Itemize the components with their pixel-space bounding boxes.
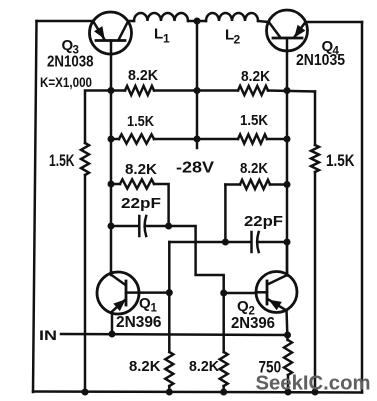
svg-text:1: 1 — [163, 32, 170, 46]
inductor L1 — [134, 13, 188, 21]
wire: left third rail y=184 start — [111, 183, 120, 186]
resistor 8.2K (left, top rail) — [125, 86, 154, 95]
label 750 — [259, 359, 282, 377]
wire: bottom middle 8.2K to rail — [222, 386, 225, 392]
wire: 1.5K left branch from node x111 y90.5 — [85, 91, 111, 144]
svg-text:1.5K: 1.5K — [240, 112, 268, 129]
label 1.5K (left vertical) — [49, 152, 75, 170]
label 2N1038 — [47, 54, 94, 71]
label 22pF (left) — [121, 195, 161, 212]
wire: right third rail corner down to right cap node — [225, 183, 240, 186]
wire: cross-coupling staircase from left cap to Q2 base — [169, 226, 224, 293]
wire: -28V supply stub from L1/L2 center tap — [196, 21, 199, 148]
wire: IN line — [61, 334, 288, 335]
svg-text:22pF: 22pF — [121, 195, 161, 212]
wire: Q1 base to node — [139, 291, 169, 294]
node: junction x111 y226 — [108, 223, 115, 230]
label Q1 — [139, 295, 158, 315]
node: junction x288 bottom rail — [285, 389, 292, 396]
label 2N396 (Q1) — [116, 314, 162, 331]
svg-text:-28V: -28V — [176, 160, 214, 177]
inductor L2 — [206, 13, 258, 21]
node: junction x223.7 bottom rail — [220, 389, 227, 396]
node: junction x85 bottom rail — [82, 389, 89, 396]
node: junction x315 bottom rail — [312, 389, 319, 396]
resistor 8.2K (bottom left) — [165, 352, 173, 386]
svg-text:K=X1,000: K=X1,000 — [40, 75, 92, 90]
wire: left third rail right end down to cap node — [154, 184, 169, 226]
resistor 1.5K (right vertical) — [311, 145, 319, 172]
svg-text:1.5K: 1.5K — [326, 152, 355, 170]
svg-text:L: L — [154, 26, 163, 43]
wire: Q2 collector into circle — [286, 242, 289, 276]
svg-text:8.2K: 8.2K — [125, 161, 157, 178]
node: junction x287 y90.5 — [284, 87, 291, 94]
resistor 1.5K (right, second rail) — [238, 134, 267, 143]
wire: Q2 emitter down to 750 — [285, 313, 288, 341]
transistor Q4 — [267, 10, 308, 51]
node: junction x197 y90.5 — [194, 87, 201, 94]
label 8.2K (right third rail) — [240, 160, 268, 177]
wire: rail y=139 middle — [154, 138, 238, 141]
resistor 8.2K (bottom middle) — [220, 352, 228, 386]
wire: Q2 base node down to bottom 8.2K — [222, 293, 225, 352]
label 1.5K (left second rail) — [127, 113, 154, 130]
node: junction x287 y184.5 — [284, 181, 291, 188]
capacitor C2 22pF (right) — [169, 232, 287, 252]
label 2N1035 — [296, 52, 345, 69]
svg-text:Q: Q — [139, 295, 151, 312]
transistor Q2 — [256, 272, 297, 313]
wire: Q4 base down the right column (x=287) — [286, 51, 289, 274]
label 8.2K (right top) — [241, 68, 270, 85]
wire: L1 to L2 with center tap — [188, 20, 206, 23]
label 2N396 (Q2) — [231, 315, 275, 332]
wire: top rail right (Q4 emitter to frame corner) — [306, 21, 362, 24]
transistor Q1 — [97, 272, 139, 314]
node: junction Q2 base x223.7 — [220, 290, 227, 297]
wire: bottom rail — [33, 392, 362, 393]
node: junction Q2 emitter x287.5 y335 — [284, 332, 291, 339]
node: junction Q1 emitter x112 y334 — [109, 331, 116, 338]
svg-text:8.2K: 8.2K — [129, 358, 161, 375]
wire: Q1 emitter down to IN line — [111, 314, 114, 335]
svg-text:8.2K: 8.2K — [240, 160, 268, 177]
svg-text:22pF: 22pF — [244, 213, 283, 230]
wire: right cap left corner down to Q1 base node — [168, 242, 171, 293]
wire: 1.5K right to bottom rail — [314, 172, 317, 392]
node: junction x287 y139 — [284, 136, 291, 143]
resistor 8.2K (right, top rail) — [238, 86, 268, 95]
wire: Q3 base down the left column (x=111) — [110, 54, 113, 272]
node: junction x225.4 y242 — [222, 239, 229, 246]
transistor Q3 — [90, 12, 132, 54]
capacitor C1 22pF (left) — [111, 216, 169, 236]
label -28V — [176, 160, 214, 177]
label Q2 — [237, 298, 255, 318]
wire: 1.5K left to bottom rail — [84, 175, 87, 392]
node: junction x111 y139 — [108, 136, 115, 143]
label Q3 — [62, 37, 79, 57]
wire: 1.5K right branch from rail y91 — [314, 92, 317, 146]
svg-text:8.2K: 8.2K — [241, 68, 270, 85]
svg-text:2N396: 2N396 — [231, 315, 275, 332]
label 1.5K (right second rail) — [240, 112, 268, 129]
node: junction x169.3 bottom rail — [166, 389, 173, 396]
wire: Q1 collector from column x111 into circle (continuation) — [110, 272, 113, 275]
svg-text:2: 2 — [234, 33, 241, 47]
wire: Q3 collector to L1 — [128, 20, 134, 23]
label 22pF (right) — [244, 213, 283, 230]
wire: top rail left (frame corner to Q3 emitter) — [37, 20, 94, 23]
resistor 750 — [284, 340, 292, 375]
node: center tap junction — [194, 18, 201, 25]
svg-text:1.5K: 1.5K — [49, 152, 75, 170]
wire: right third rail right end — [270, 183, 287, 186]
label IN — [39, 327, 57, 343]
wire: L2 to Q4 collector — [258, 21, 269, 22]
resistor 8.2K (left, third rail) — [120, 179, 154, 188]
label 8.2K (bottom middle) — [189, 358, 219, 375]
watermark SeekIC.com — [256, 373, 371, 395]
wire: bottom 8.2K to rail — [168, 386, 171, 392]
label 1.5K (right vertical) — [326, 152, 355, 170]
resistor 1.5K (left, second rail) — [119, 134, 154, 143]
svg-text:2N1038: 2N1038 — [47, 54, 94, 71]
label L2 — [225, 27, 241, 47]
svg-text:Q: Q — [237, 298, 249, 315]
svg-text:8.2K: 8.2K — [189, 358, 219, 375]
node: junction x111 y90.5 — [108, 87, 115, 94]
wire: Q1 base node down to bottom 8.2K — [168, 293, 171, 352]
node: junction x168.6 y226 — [165, 223, 172, 230]
wire: 750 to bottom rail — [287, 375, 290, 392]
label K=X1,000 — [40, 75, 92, 90]
wire: 1.5K rail y=139 left segment — [111, 138, 119, 141]
resistor 8.2K (right, third rail) — [240, 180, 270, 189]
wire: right frame vertical — [361, 22, 364, 393]
node: junction x111 y184 — [108, 181, 115, 188]
svg-text:1: 1 — [151, 303, 158, 315]
label 8.2K (left top) — [128, 67, 158, 84]
wire: Q2 base to node — [224, 292, 256, 295]
svg-text:SeekIC.com: SeekIC.com — [256, 373, 371, 395]
wire: rail y=90.5 right end to 1.5K right column — [268, 91, 315, 92]
svg-text:8.2K: 8.2K — [128, 67, 158, 84]
node: junction x287 y242 — [284, 239, 291, 246]
label 8.2K (bottom left) — [129, 358, 161, 375]
label 8.2K (left third rail) — [125, 161, 157, 178]
wire: vertical from right third rail down to right cap line — [224, 185, 227, 243]
resistor 1.5K (left vertical) — [81, 143, 89, 175]
wire: left frame vertical — [33, 21, 37, 392]
label Q4 — [322, 38, 340, 58]
node: junction x197 y139 — [194, 136, 201, 143]
wire: -28V rail y=90.5 left segment — [111, 89, 125, 92]
wire: rail y=139 right end — [267, 138, 287, 141]
node: junction Q1 base x169.3 — [166, 289, 173, 296]
svg-text:2N396: 2N396 — [116, 314, 162, 331]
svg-text:2N1035: 2N1035 — [296, 52, 345, 69]
svg-text:1.5K: 1.5K — [127, 113, 154, 130]
svg-text:IN: IN — [39, 327, 57, 343]
label L1 — [154, 26, 170, 46]
wire: rail y=90.5 middle — [154, 89, 238, 92]
